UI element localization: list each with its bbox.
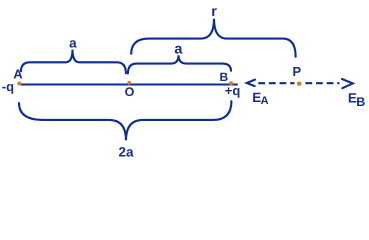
svg-text:P: P bbox=[293, 64, 302, 79]
svg-text:A: A bbox=[13, 67, 23, 82]
svg-text:2a: 2a bbox=[119, 145, 135, 160]
svg-text:a: a bbox=[69, 36, 77, 51]
svg-text:B: B bbox=[356, 95, 365, 109]
svg-text:r: r bbox=[211, 4, 217, 20]
svg-text:+q: +q bbox=[225, 83, 241, 98]
svg-text:B: B bbox=[220, 70, 229, 84]
svg-text:-q: -q bbox=[2, 79, 14, 94]
svg-text:a: a bbox=[174, 42, 183, 58]
svg-text:A: A bbox=[261, 95, 269, 107]
svg-text:O: O bbox=[125, 85, 135, 99]
